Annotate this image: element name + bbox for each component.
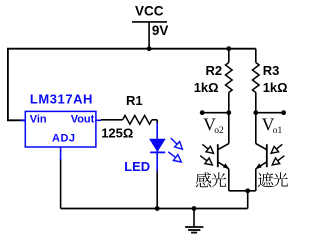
svg-text:9V: 9V bbox=[152, 23, 169, 38]
svg-text:o1: o1 bbox=[273, 126, 283, 136]
svg-text:VCC: VCC bbox=[135, 3, 164, 18]
svg-text:1kΩ: 1kΩ bbox=[194, 80, 219, 95]
svg-text:1kΩ: 1kΩ bbox=[263, 80, 288, 95]
svg-text:R1: R1 bbox=[126, 93, 143, 108]
svg-text:LM317AH: LM317AH bbox=[30, 92, 93, 107]
svg-text:o2: o2 bbox=[214, 126, 224, 136]
svg-text:125Ω: 125Ω bbox=[101, 126, 133, 141]
svg-text:Vout: Vout bbox=[71, 114, 95, 126]
svg-text:R3: R3 bbox=[263, 63, 280, 78]
svg-text:Vin: Vin bbox=[30, 114, 47, 126]
svg-text:ADJ: ADJ bbox=[52, 133, 76, 145]
svg-text:R2: R2 bbox=[206, 63, 223, 78]
svg-text:LED: LED bbox=[124, 159, 150, 174]
